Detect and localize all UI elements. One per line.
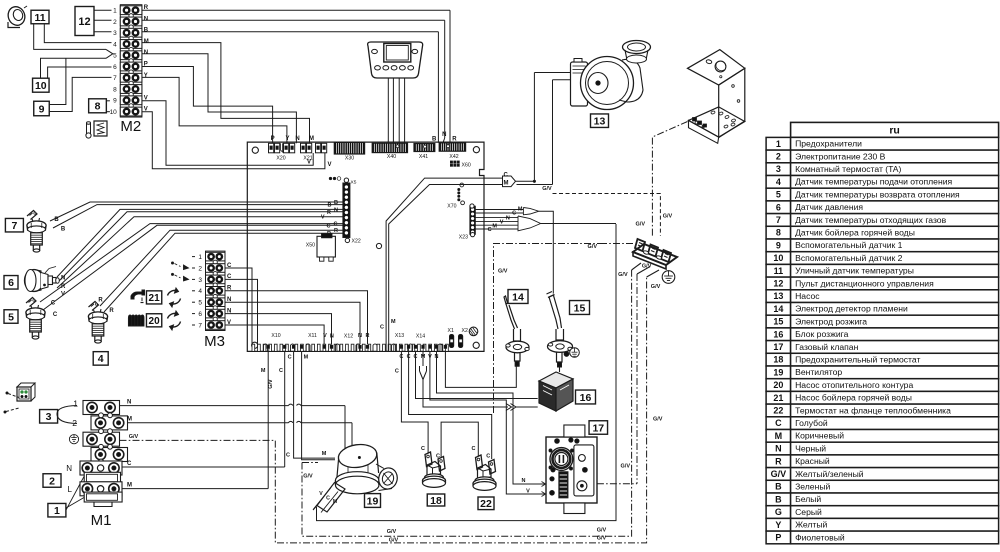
svg-text:M: M xyxy=(333,499,337,505)
svg-text:Белый: Белый xyxy=(795,494,821,504)
svg-text:X42: X42 xyxy=(449,154,458,160)
svg-text:Вентилятор: Вентилятор xyxy=(795,367,842,377)
svg-text:11: 11 xyxy=(34,12,45,24)
svg-text:1: 1 xyxy=(113,8,117,15)
svg-text:C: C xyxy=(775,418,782,428)
svg-text:C: C xyxy=(421,446,425,452)
svg-text:M: M xyxy=(309,136,314,142)
svg-text:X12: X12 xyxy=(344,334,353,340)
svg-text:C: C xyxy=(407,354,411,360)
svg-text:3: 3 xyxy=(113,30,117,37)
svg-text:V: V xyxy=(526,489,530,495)
svg-text:20: 20 xyxy=(149,316,161,327)
svg-text:C: C xyxy=(51,301,56,307)
svg-text:V: V xyxy=(321,215,325,221)
svg-text:12: 12 xyxy=(773,279,783,289)
svg-text:1: 1 xyxy=(776,139,781,149)
svg-text:16: 16 xyxy=(773,329,783,339)
svg-text:M: M xyxy=(421,354,426,360)
svg-text:4: 4 xyxy=(198,288,202,295)
svg-text:N: N xyxy=(775,444,782,454)
svg-text:2: 2 xyxy=(198,265,202,272)
svg-text:8: 8 xyxy=(113,86,117,93)
svg-text:X30: X30 xyxy=(345,156,354,162)
svg-text:ru: ru xyxy=(889,125,900,137)
svg-text:L: L xyxy=(68,485,73,494)
svg-text:5: 5 xyxy=(776,190,781,200)
svg-text:V: V xyxy=(323,333,327,339)
svg-text:10: 10 xyxy=(110,109,118,116)
svg-text:Насос отопительного контура: Насос отопительного контура xyxy=(795,380,913,390)
svg-text:M: M xyxy=(144,39,149,45)
svg-text:P: P xyxy=(144,62,148,68)
svg-text:4: 4 xyxy=(98,353,104,365)
svg-text:M1: M1 xyxy=(91,512,112,529)
svg-text:X11: X11 xyxy=(308,333,317,339)
svg-text:19: 19 xyxy=(367,495,379,507)
svg-text:Уличный датчик температуры: Уличный датчик температуры xyxy=(795,266,914,276)
svg-text:N: N xyxy=(522,478,526,484)
svg-text:V: V xyxy=(319,491,323,497)
svg-text:6: 6 xyxy=(113,64,117,71)
svg-text:C: C xyxy=(380,325,384,331)
svg-text:7: 7 xyxy=(113,75,117,82)
svg-text:Электропитание 230 В: Электропитание 230 В xyxy=(795,151,886,161)
svg-text:14: 14 xyxy=(512,291,524,303)
svg-text:21: 21 xyxy=(773,393,783,403)
svg-text:Комнатный термостат (TA): Комнатный термостат (TA) xyxy=(795,164,901,174)
svg-text:6: 6 xyxy=(776,202,781,212)
svg-text:3: 3 xyxy=(46,411,52,423)
svg-text:M: M xyxy=(261,368,266,374)
svg-text:G/V: G/V xyxy=(542,186,552,192)
svg-text:Электрод розжига: Электрод розжига xyxy=(795,316,867,326)
svg-text:N: N xyxy=(334,207,338,213)
svg-text:4: 4 xyxy=(776,177,781,187)
svg-text:M: M xyxy=(504,180,509,186)
svg-text:C: C xyxy=(334,222,338,228)
svg-text:13: 13 xyxy=(594,115,606,127)
svg-text:G/V: G/V xyxy=(663,214,673,220)
svg-text:M: M xyxy=(127,482,132,488)
svg-text:X14: X14 xyxy=(416,334,425,340)
svg-text:4: 4 xyxy=(113,41,117,48)
svg-text:R: R xyxy=(775,456,782,466)
svg-text:2: 2 xyxy=(49,475,55,487)
svg-text:N: N xyxy=(144,16,148,22)
svg-text:P: P xyxy=(775,533,781,543)
svg-text:G/V: G/V xyxy=(651,284,661,290)
svg-text:V: V xyxy=(500,220,504,226)
svg-text:X70: X70 xyxy=(447,204,456,210)
svg-text:V: V xyxy=(328,162,332,168)
svg-text:X2: X2 xyxy=(462,328,468,334)
svg-text:G/V: G/V xyxy=(498,269,508,275)
svg-text:M: M xyxy=(127,417,132,423)
svg-text:Насос: Насос xyxy=(795,291,820,301)
svg-text:B: B xyxy=(54,217,59,223)
svg-text:3: 3 xyxy=(198,277,202,284)
svg-text:8: 8 xyxy=(95,101,101,113)
svg-text:N: N xyxy=(295,136,299,142)
svg-text:N: N xyxy=(442,132,446,138)
svg-text:10: 10 xyxy=(35,80,47,92)
svg-text:5: 5 xyxy=(113,53,117,60)
svg-text:R: R xyxy=(366,333,370,339)
svg-text:17: 17 xyxy=(773,342,783,352)
svg-text:V: V xyxy=(144,95,148,101)
svg-text:M2: M2 xyxy=(120,118,141,135)
svg-text:P: P xyxy=(271,136,275,142)
svg-text:9: 9 xyxy=(776,240,781,250)
svg-text:5: 5 xyxy=(198,300,202,307)
svg-text:B: B xyxy=(775,482,782,492)
svg-text:6: 6 xyxy=(8,277,14,289)
svg-text:Зеленый: Зеленый xyxy=(795,482,830,492)
svg-text:R: R xyxy=(109,308,114,314)
svg-text:Желтый/зеленый: Желтый/зеленый xyxy=(795,469,864,479)
svg-text:N: N xyxy=(435,354,439,360)
svg-text:R: R xyxy=(327,210,331,216)
svg-text:Насос бойлера горячей воды: Насос бойлера горячей воды xyxy=(795,393,912,403)
svg-text:14: 14 xyxy=(773,304,783,314)
svg-text:20: 20 xyxy=(773,380,783,390)
svg-text:C: C xyxy=(399,354,403,360)
svg-text:M: M xyxy=(322,451,327,457)
svg-text:C: C xyxy=(512,211,516,217)
svg-text:B: B xyxy=(144,28,149,34)
svg-text:X20: X20 xyxy=(276,156,285,162)
svg-text:22: 22 xyxy=(480,498,492,510)
svg-text:Фиолетовый: Фиолетовый xyxy=(795,532,845,542)
svg-text:M: M xyxy=(775,431,783,441)
svg-text:G/V: G/V xyxy=(588,244,598,250)
svg-text:N: N xyxy=(358,333,362,339)
svg-text:N: N xyxy=(506,216,510,222)
svg-text:1: 1 xyxy=(73,399,78,409)
svg-text:G/V: G/V xyxy=(597,528,607,534)
svg-text:Вспомогательный датчик 1: Вспомогательный датчик 1 xyxy=(795,240,903,250)
svg-text:G/V: G/V xyxy=(636,222,646,228)
svg-text:Термостат на фланце теплообмен: Термостат на фланце теплообменника xyxy=(795,405,951,415)
svg-text:C: C xyxy=(486,454,490,460)
svg-text:13: 13 xyxy=(773,291,783,301)
svg-text:N: N xyxy=(144,50,148,56)
svg-text:C: C xyxy=(53,312,58,318)
svg-text:X50: X50 xyxy=(306,243,315,249)
svg-text:V: V xyxy=(144,107,148,113)
svg-text:X23: X23 xyxy=(459,235,468,241)
svg-text:N: N xyxy=(330,334,334,340)
svg-text:Y: Y xyxy=(775,520,781,530)
svg-text:C: C xyxy=(395,369,399,375)
svg-text:C: C xyxy=(488,227,492,233)
svg-text:Желтый: Желтый xyxy=(795,520,827,530)
svg-text:Голубой: Голубой xyxy=(795,418,828,428)
svg-text:Датчик бойлера горячей воды: Датчик бойлера горячей воды xyxy=(795,228,915,238)
svg-text:B: B xyxy=(328,203,332,209)
svg-text:12: 12 xyxy=(78,16,90,28)
svg-text:3: 3 xyxy=(776,164,781,174)
svg-text:N: N xyxy=(61,276,65,282)
svg-text:18: 18 xyxy=(773,355,783,365)
svg-text:C: C xyxy=(504,173,509,179)
svg-text:Пульт дистанционного управлени: Пульт дистанционного управления xyxy=(795,278,934,288)
svg-text:X40: X40 xyxy=(387,154,396,160)
svg-text:18: 18 xyxy=(430,495,442,507)
svg-text:R: R xyxy=(334,228,338,234)
svg-text:G/V: G/V xyxy=(642,264,652,270)
svg-text:X21: X21 xyxy=(303,156,312,162)
svg-text:G/V: G/V xyxy=(653,417,663,423)
svg-text:X1: X1 xyxy=(448,328,454,334)
svg-text:Черный: Черный xyxy=(795,443,826,453)
svg-text:C: C xyxy=(286,453,290,459)
svg-text:X5: X5 xyxy=(351,180,357,186)
svg-text:C: C xyxy=(472,446,476,452)
svg-text:Y: Y xyxy=(144,73,148,79)
svg-text:Газовый клапан: Газовый клапан xyxy=(795,342,858,352)
svg-text:Серый: Серый xyxy=(795,507,822,517)
svg-text:7: 7 xyxy=(198,322,202,329)
svg-text:7: 7 xyxy=(776,215,781,225)
svg-text:G/V: G/V xyxy=(389,537,399,543)
svg-text:N: N xyxy=(66,464,72,473)
svg-text:6: 6 xyxy=(198,311,202,318)
svg-text:Вспомогательный датчик 2: Вспомогательный датчик 2 xyxy=(795,253,903,263)
svg-text:10: 10 xyxy=(773,253,783,263)
svg-text:21: 21 xyxy=(149,293,161,304)
svg-text:G/V: G/V xyxy=(387,529,397,535)
svg-text:X60: X60 xyxy=(462,163,471,169)
svg-text:Электрод детектор пламени: Электрод детектор пламени xyxy=(795,304,908,314)
svg-text:15: 15 xyxy=(574,302,586,314)
svg-text:C: C xyxy=(127,461,132,467)
svg-text:11: 11 xyxy=(774,266,784,276)
svg-text:M: M xyxy=(304,355,309,361)
svg-text:Датчик температуры подачи отоп: Датчик температуры подачи отопления xyxy=(795,177,952,187)
svg-text:X41: X41 xyxy=(419,154,428,160)
svg-text:G/V: G/V xyxy=(771,469,787,479)
svg-text:G/V: G/V xyxy=(303,474,313,480)
svg-text:1: 1 xyxy=(198,254,202,261)
svg-text:G/V: G/V xyxy=(597,536,607,542)
svg-text:C: C xyxy=(326,496,330,502)
svg-text:Предохранители: Предохранители xyxy=(795,139,862,149)
svg-text:5: 5 xyxy=(8,311,14,323)
svg-text:2: 2 xyxy=(776,152,781,162)
svg-text:V: V xyxy=(428,354,432,360)
svg-text:8: 8 xyxy=(776,228,781,238)
svg-text:R: R xyxy=(144,5,149,11)
svg-text:C: C xyxy=(414,354,418,360)
svg-text:B: B xyxy=(61,227,66,233)
svg-text:B: B xyxy=(775,494,782,504)
svg-text:15: 15 xyxy=(773,317,783,327)
svg-text:19: 19 xyxy=(773,367,783,377)
svg-text:Датчик температуры отходящих г: Датчик температуры отходящих газов xyxy=(795,215,946,225)
svg-text:G: G xyxy=(775,507,782,517)
svg-text:16: 16 xyxy=(580,392,592,404)
svg-text:Y: Y xyxy=(285,136,289,142)
svg-text:G/V: G/V xyxy=(129,434,139,440)
svg-text:Предохранительный термостат: Предохранительный термостат xyxy=(795,355,920,365)
svg-text:2: 2 xyxy=(113,19,117,26)
svg-text:N: N xyxy=(127,400,131,406)
svg-text:G/V: G/V xyxy=(618,272,628,278)
svg-text:Датчик давления: Датчик давления xyxy=(795,202,863,212)
svg-text:X13: X13 xyxy=(395,333,404,339)
svg-text:9: 9 xyxy=(113,98,117,105)
svg-text:C: C xyxy=(288,355,292,361)
svg-text:Красный: Красный xyxy=(795,456,830,466)
svg-text:9: 9 xyxy=(39,103,45,115)
svg-text:7: 7 xyxy=(11,220,17,232)
svg-text:G/V: G/V xyxy=(268,379,274,389)
svg-text:17: 17 xyxy=(592,422,604,434)
svg-text:1: 1 xyxy=(54,505,60,517)
svg-text:C: C xyxy=(279,368,283,374)
svg-text:C: C xyxy=(327,223,331,229)
svg-text:X10: X10 xyxy=(271,333,280,339)
svg-text:G/V: G/V xyxy=(621,464,631,470)
svg-text:Коричневый: Коричневый xyxy=(795,431,844,441)
svg-text:R: R xyxy=(98,298,103,304)
svg-text:M3: M3 xyxy=(204,333,225,350)
svg-text:Блок розжига: Блок розжига xyxy=(795,329,848,339)
svg-text:M: M xyxy=(492,223,497,229)
svg-text:M: M xyxy=(518,207,523,213)
svg-text:22: 22 xyxy=(773,406,783,416)
svg-text:B: B xyxy=(334,200,338,206)
svg-text:M: M xyxy=(391,319,396,325)
svg-text:X22: X22 xyxy=(352,239,361,245)
svg-text:Датчик температуры возврата от: Датчик температуры возврата отопления xyxy=(795,189,960,199)
